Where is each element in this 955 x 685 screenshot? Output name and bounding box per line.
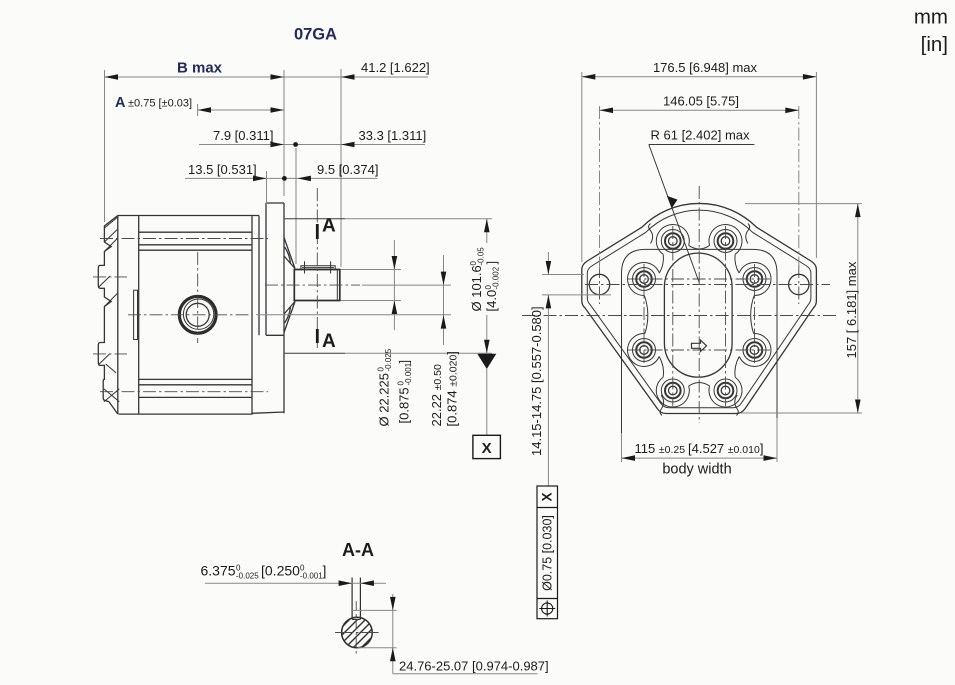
- right ear hole: [789, 274, 809, 294]
- witness line flange left edge: [581, 72, 583, 262]
- arrow dia22.225 bottom: [392, 301, 398, 315]
- pocket hook bottom-right: [735, 395, 739, 416]
- section A-A view: [318, 540, 394, 671]
- witness line shaft top for dia 22.225: [341, 269, 402, 271]
- svg-text:13.5 [0.531]: 13.5 [0.531]: [188, 162, 257, 177]
- bolt boss arc 7: [628, 333, 660, 366]
- witness line pump rear: [104, 70, 106, 222]
- arrow 176.5 left: [582, 74, 596, 80]
- witness centerline ear left: [599, 106, 601, 272]
- side view shaft cone upper: [284, 238, 295, 269]
- bolt row centerline upper: [628, 278, 770, 280]
- svg-text:]: ]: [397, 360, 412, 364]
- front view inner flange outline: [587, 210, 811, 408]
- svg-text:A: A: [115, 95, 126, 111]
- dimension line 176.5: [582, 76, 817, 78]
- svg-text:6.375: 6.375: [201, 563, 236, 579]
- arrow 146.05 right: [785, 108, 799, 114]
- arrow A dim right: [271, 107, 285, 113]
- witness line 115 left: [621, 433, 623, 462]
- arrow 157 top: [855, 204, 861, 218]
- key slot sides: [352, 578, 360, 620]
- pocket connector bottom: [689, 383, 710, 387]
- side view cover inner edge: [117, 216, 119, 415]
- bolt hole 4: [743, 339, 766, 362]
- svg-text:33.3 [1.311]: 33.3 [1.311]: [359, 128, 427, 143]
- datum triangle: [477, 354, 496, 369]
- svg-text:[in]: [in]: [921, 33, 948, 56]
- front view body square behind flange: [622, 249, 778, 458]
- side view top port lines: [139, 232, 252, 250]
- ear hole vertical centerline left: [599, 265, 601, 304]
- port vertical centerline: [197, 252, 199, 343]
- front view vertical centerline: [698, 186, 700, 423]
- key slot white fill: [353, 612, 360, 619]
- dimension line 157: [857, 204, 859, 413]
- dimension line B max / 41.2: [105, 76, 429, 78]
- witness line 157 top: [745, 203, 862, 205]
- witness line 115 right: [776, 418, 778, 462]
- frame datum letter X: [540, 492, 555, 501]
- label 14.15-14.75 rotated: [529, 306, 544, 456]
- svg-text:B max: B max: [177, 60, 223, 77]
- pocket connector top: [689, 245, 710, 249]
- svg-text:07GA: 07GA: [294, 26, 337, 44]
- side view bottom port lines: [139, 379, 252, 397]
- section cut line A-A: [316, 188, 318, 348]
- arrow dia101.6 bottom: [484, 340, 490, 354]
- arrow 14.15 bottom: [546, 295, 552, 309]
- upper tab centerline: [93, 276, 127, 278]
- dimension line 6.375: [205, 582, 386, 584]
- svg-text:±0.75 [±0.03]: ±0.75 [±0.03]: [128, 98, 192, 110]
- bolt hole 1: [661, 230, 684, 253]
- ear axis centerline: [585, 284, 830, 286]
- leader to datum X box: [486, 369, 488, 435]
- arrow 22.22 bottom: [441, 315, 447, 329]
- arrow 9.5: [297, 176, 311, 182]
- side view shaft end inner line: [336, 270, 338, 301]
- port horizontal centerline: [128, 314, 250, 316]
- witness line flange rear: [266, 171, 268, 204]
- bolt hole 2: [714, 230, 737, 253]
- witness centerline ear right: [798, 106, 800, 272]
- pilot boss bottom edge: [285, 352, 345, 354]
- arrow 33.3: [341, 142, 355, 148]
- dimension line dia 101.6 upper part: [486, 219, 488, 243]
- side view body outline: [118, 216, 252, 415]
- arrow 7.9: [271, 142, 285, 148]
- label dia 101.6 rotated: [469, 247, 486, 312]
- label 22.22 rotated: [429, 364, 444, 427]
- R61 leader line: [649, 145, 699, 283]
- bolt side centerline left: [643, 264, 645, 365]
- witness line port axis ext: [256, 314, 451, 316]
- side view port circle middle: [183, 299, 213, 329]
- witness line pilot top: [345, 218, 492, 220]
- bolt boss arc 8: [628, 263, 660, 296]
- arrow 6.375 left: [339, 580, 353, 586]
- dimension line 146.05: [600, 109, 799, 111]
- pocket connector left: [644, 296, 647, 334]
- section mark bottom: [316, 329, 319, 343]
- origin dot 7.9/33.3: [293, 142, 298, 147]
- side view shaft: [294, 270, 340, 301]
- pocket connector upper-left: [659, 254, 663, 273]
- svg-text:A-A: A-A: [342, 540, 374, 560]
- key slot bottom: [352, 618, 360, 620]
- svg-text:X: X: [482, 440, 492, 457]
- port axis centerline front: [522, 315, 838, 317]
- bolt boss arc 5: [709, 377, 742, 407]
- arrow B max right: [271, 74, 285, 80]
- witness line shaft axis ext: [362, 284, 451, 286]
- bolt row centerline lower: [628, 349, 770, 351]
- svg-text:24.76-25.07 [0.974-0.987]: 24.76-25.07 [0.974-0.987]: [399, 659, 549, 674]
- dimension line 13.5 / 9.5: [185, 177, 377, 179]
- section centerline horizontal: [335, 632, 379, 634]
- label dia 22.225 rotated: [377, 348, 394, 426]
- frame tolerance text: [541, 515, 555, 591]
- witness line slot top: [542, 274, 584, 276]
- bolt hole 8: [633, 268, 656, 291]
- svg-text:R 61 [2.402] max: R 61 [2.402] max: [651, 128, 750, 143]
- datum X box: [473, 435, 501, 458]
- bolt column centerline left: [672, 226, 674, 406]
- pocket connector lower-right: [735, 357, 739, 378]
- svg-text:176.5 [6.948] max: 176.5 [6.948] max: [653, 60, 758, 75]
- side view rear cover outline: [98, 216, 118, 414]
- shaft section hatch: [318, 595, 394, 671]
- bolt boss arc 6: [656, 377, 689, 407]
- svg-text:-0.001: -0.001: [300, 572, 323, 581]
- pocket connector right: [751, 296, 754, 334]
- svg-text:-0.025: -0.025: [236, 572, 259, 581]
- svg-text:Ø 101.6: Ø 101.6: [469, 265, 484, 311]
- side view port circle outer: [179, 296, 216, 333]
- arrow A dim left: [198, 107, 211, 113]
- witness line slot bottom: [542, 294, 611, 296]
- svg-text:146.05 [5.75]: 146.05 [5.75]: [663, 94, 739, 109]
- svg-text:115 ±0.25 [4.527 ±0.010]: 115 ±0.25 [4.527 ±0.010]: [635, 441, 764, 456]
- arrow 115 left: [622, 455, 636, 461]
- section centerline vertical: [355, 601, 357, 656]
- witness line shaft bottom tangent: [358, 647, 397, 649]
- svg-text:[0.250: [0.250: [261, 563, 300, 579]
- central oval bore: [664, 253, 732, 377]
- left ear hole: [589, 274, 609, 294]
- svg-text:Ø0.75 [0.030]: Ø0.75 [0.030]: [541, 515, 555, 591]
- side view shaft seal edge: [293, 270, 295, 301]
- origin dot 13.5/9.5: [282, 176, 287, 181]
- arrow 157 bottom: [855, 400, 861, 414]
- witness line pilot bottom: [345, 352, 492, 354]
- witness line shaft end: [340, 69, 342, 267]
- dimension line 7.9 / 33.3: [199, 144, 425, 146]
- position symbol: [542, 603, 553, 614]
- dimension line 14.15 lower leader to frame: [547, 295, 549, 486]
- svg-text:[4.0: [4.0: [484, 290, 499, 312]
- svg-text:-0.001: -0.001: [404, 362, 413, 385]
- side view key: [301, 266, 335, 270]
- arrow 14.15 top: [546, 261, 552, 275]
- arrow dia22.225 top: [392, 256, 398, 270]
- svg-text:157 [ 6.181] max: 157 [ 6.181] max: [844, 261, 859, 358]
- pilot boss top edge: [285, 218, 345, 220]
- pocket hook bottom-left: [660, 395, 664, 416]
- svg-text:22.22 ±0.50: 22.22 ±0.50: [429, 364, 444, 427]
- bolt hole 7: [633, 339, 656, 362]
- bolt hole 5: [714, 379, 737, 402]
- R61 leader underline: [649, 144, 755, 146]
- label 157 rotated: [844, 261, 859, 358]
- svg-text:body width: body width: [662, 462, 731, 478]
- svg-text:-0.025: -0.025: [384, 348, 393, 371]
- svg-text:14.15-14.75 [0.557-0.580]: 14.15-14.75 [0.557-0.580]: [529, 306, 544, 456]
- feature control frame: [537, 486, 558, 619]
- pocket hook top-right: [746, 224, 750, 244]
- bolt column centerline right: [725, 226, 727, 406]
- flow arrow glyph: [692, 340, 707, 351]
- dimension line dia 22.225: [393, 240, 395, 330]
- arrow 22.22 top: [441, 272, 447, 286]
- dimension line 115: [622, 457, 778, 459]
- upper port boss centerline: [100, 238, 268, 240]
- arrow 41.2: [341, 74, 355, 80]
- side view shaft cone lower: [284, 302, 295, 333]
- svg-text:X: X: [540, 492, 555, 501]
- pocket connector lower-left: [659, 357, 663, 378]
- svg-text:A: A: [322, 331, 336, 352]
- shaft centerline: [265, 284, 360, 286]
- side view body front plate lines: [252, 216, 259, 336]
- lower port boss centerline: [100, 391, 268, 393]
- bolt side centerline right: [754, 264, 756, 365]
- leader underline 24.76: [393, 673, 538, 675]
- svg-text:]: ]: [323, 563, 327, 579]
- svg-text:]: ]: [484, 261, 499, 265]
- section mark top: [316, 224, 319, 239]
- arrow R61: [667, 196, 678, 209]
- arrow 13.5: [253, 176, 267, 182]
- arrow 115 right: [764, 455, 778, 461]
- witness line 157 bottom: [741, 412, 862, 414]
- witness line flange right edge: [815, 72, 817, 258]
- ear hole vertical centerline right: [798, 265, 800, 304]
- arrow 6.375 right: [360, 580, 374, 586]
- arrow 24.76 top: [390, 597, 396, 611]
- bolt boss arc 2: [709, 224, 742, 254]
- bolt boss arc 1: [656, 224, 689, 254]
- arrow 24.76 bottom: [390, 648, 396, 662]
- shaft section circle: [342, 617, 373, 648]
- svg-text:41.2 [1.622]: 41.2 [1.622]: [361, 60, 430, 75]
- side view body-cover joint: [138, 216, 140, 415]
- arrow 176.5 right: [803, 74, 817, 80]
- witness line flange face: [283, 70, 285, 196]
- side view flange plate: [252, 203, 284, 413]
- dimension line 24.76 vertical: [392, 594, 394, 674]
- bolt boss arc 3: [739, 263, 771, 296]
- dimension line 14.15 upper: [547, 252, 549, 275]
- side view key end ticks: [305, 261, 331, 273]
- witness line slot depth top: [352, 609, 396, 611]
- bolt hole 6: [661, 379, 684, 402]
- dimension line A ±0.75: [198, 109, 284, 111]
- witness line port center top: [197, 104, 199, 116]
- svg-text:7.9 [0.311]: 7.9 [0.311]: [213, 128, 273, 143]
- arrow B max left: [105, 74, 119, 80]
- dimension line dia 101.6 lower part: [486, 315, 488, 353]
- side view port circle inner: [186, 303, 209, 326]
- dimension line 22.22: [443, 255, 445, 345]
- svg-text:9.5 [0.374]: 9.5 [0.374]: [317, 162, 378, 177]
- witness line shaft bottom for dia 22.225: [341, 300, 402, 302]
- lower tab centerline: [93, 353, 127, 355]
- arrow dia101.6 top: [484, 219, 490, 233]
- bolt hole 3: [743, 268, 766, 291]
- witness line groove: [295, 148, 297, 264]
- bolt boss arc 4: [739, 333, 771, 366]
- pocket hook top-left: [649, 224, 653, 244]
- pocket connector upper-right: [735, 254, 739, 273]
- front view outer flange outline: [582, 203, 817, 413]
- svg-text:[0.875: [0.875: [397, 387, 412, 423]
- arrow 146.05 left: [600, 108, 614, 114]
- svg-text:mm: mm: [914, 6, 948, 29]
- svg-text:-0.002: -0.002: [492, 266, 501, 289]
- svg-text:[0.874 ±0.020]: [0.874 ±0.020]: [445, 351, 460, 426]
- side view small slot rectangle: [134, 290, 138, 339]
- side view cover rib diagonals: [99, 217, 120, 402]
- svg-text:Ø 22.225: Ø 22.225: [377, 373, 392, 427]
